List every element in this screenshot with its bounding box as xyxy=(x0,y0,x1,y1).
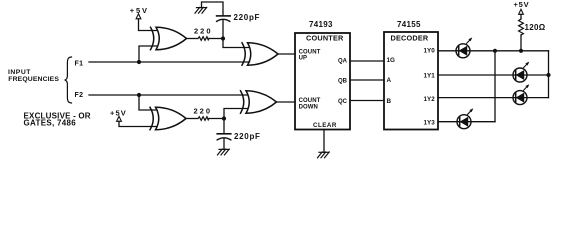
svg-text:F1: F1 xyxy=(75,60,84,67)
wire arrow to resistor xyxy=(520,14,522,19)
resistor 220 (bottom) xyxy=(198,117,209,121)
wire resistor to node 1 xyxy=(209,38,223,40)
svg-text:220: 220 xyxy=(194,26,213,35)
node 1 junction xyxy=(221,36,225,40)
node bus-left junction xyxy=(493,49,497,53)
wire capacitor C2 to ground xyxy=(223,138,225,149)
wire right riser (bus corner down to 1Y2 row) xyxy=(548,51,550,98)
wire F2 xyxy=(89,94,248,96)
wire 1Y2 row xyxy=(438,97,549,99)
wire gate C output xyxy=(186,118,197,120)
svg-text:1Y3: 1Y3 xyxy=(424,119,436,126)
svg-text:+5V: +5V xyxy=(130,6,149,15)
power arrow xyxy=(519,9,524,14)
svg-text:120Ω: 120Ω xyxy=(525,23,546,32)
power arrow xyxy=(117,116,122,121)
node junction F1 xyxy=(137,60,141,64)
svg-text:F2: F2 xyxy=(75,92,84,99)
svg-text:+5V: +5V xyxy=(514,0,530,9)
wire left riser (1Y3 to bus) xyxy=(494,51,496,122)
wire F2 junction to gate C top input xyxy=(139,95,157,110)
svg-text:74193: 74193 xyxy=(309,20,333,29)
wire gate A output xyxy=(187,38,198,40)
node junction F2 xyxy=(137,93,141,97)
wire QB to A xyxy=(350,79,384,81)
wire +5V to gate C bottom input xyxy=(119,121,157,126)
svg-text:A: A xyxy=(387,77,392,84)
wire QC to B xyxy=(350,100,384,102)
svg-text:CLEAR: CLEAR xyxy=(313,122,337,129)
node 1Y1 riser junction xyxy=(546,73,550,77)
svg-text:74155: 74155 xyxy=(397,20,421,29)
svg-text:UP: UP xyxy=(299,55,308,61)
svg-text:QC: QC xyxy=(338,99,348,105)
resistor 120 ohm (vertical) xyxy=(519,19,524,35)
svg-text:DOWN: DOWN xyxy=(299,104,318,110)
wire gate B output to counter COUNT UP xyxy=(278,53,295,55)
svg-text:COUNT: COUNT xyxy=(299,98,321,104)
wire 1Y0 row to bus xyxy=(438,50,549,52)
svg-text:1G: 1G xyxy=(387,57,396,64)
wire 1Y1 row xyxy=(438,74,549,76)
LED D4 (1Y3) xyxy=(457,108,473,128)
svg-text:1Y0: 1Y0 xyxy=(424,48,436,55)
resistor 220 (top) xyxy=(198,37,209,41)
wire node 2 to gate D bottom input xyxy=(224,109,248,119)
svg-text:QA: QA xyxy=(338,59,348,65)
wire +5V to gate A top input xyxy=(139,19,158,31)
svg-text:COUNTER: COUNTER xyxy=(306,34,344,43)
wire node 1 to gate B top input xyxy=(223,39,249,48)
ground (below counter) xyxy=(318,152,330,158)
svg-text:INPUT: INPUT xyxy=(8,69,31,76)
wire 1Y3 row xyxy=(438,121,495,123)
wire QA to 1G xyxy=(350,60,384,62)
brace xyxy=(65,57,72,103)
wire counter clear to ground xyxy=(323,130,325,153)
wire gate D output to counter COUNT DOWN xyxy=(277,101,296,103)
ground (top, for C1) xyxy=(195,7,207,13)
svg-text:FREQUENCIES: FREQUENCIES xyxy=(8,76,59,83)
svg-text:DECODER: DECODER xyxy=(391,33,429,42)
svg-text:QB: QB xyxy=(338,78,348,84)
ground (bottom, for C2) xyxy=(218,149,230,155)
svg-text:1Y1: 1Y1 xyxy=(424,73,436,80)
svg-text:220pF: 220pF xyxy=(234,132,261,141)
capacitor C1 220pF xyxy=(217,19,230,21)
node 2 junction xyxy=(222,116,226,120)
power arrow xyxy=(136,14,141,19)
svg-text:220pF: 220pF xyxy=(234,13,261,22)
wire resistor to node 2 xyxy=(209,118,224,120)
svg-text:GATES, 7486: GATES, 7486 xyxy=(24,119,77,128)
svg-text:1Y2: 1Y2 xyxy=(424,96,436,103)
svg-text:+5V: +5V xyxy=(110,109,127,118)
capacitor C2 220pF xyxy=(217,133,231,135)
LED D2 (1Y1) xyxy=(513,62,529,82)
wire node 1 up to capacitor C1 xyxy=(222,21,224,39)
wire node 2 down to capacitor C2 xyxy=(223,119,225,134)
svg-text:B: B xyxy=(387,98,392,105)
LED D1 (1Y0) xyxy=(456,37,472,57)
wire F1 junction to gate A bottom input xyxy=(139,46,158,62)
wire resistor to bus xyxy=(520,35,522,51)
wire capacitor C1 to ground xyxy=(202,2,224,16)
wire F1 xyxy=(89,61,250,63)
svg-text:220: 220 xyxy=(194,106,213,115)
node resistor junction xyxy=(519,49,523,53)
LED D3 (1Y2) xyxy=(513,84,529,104)
